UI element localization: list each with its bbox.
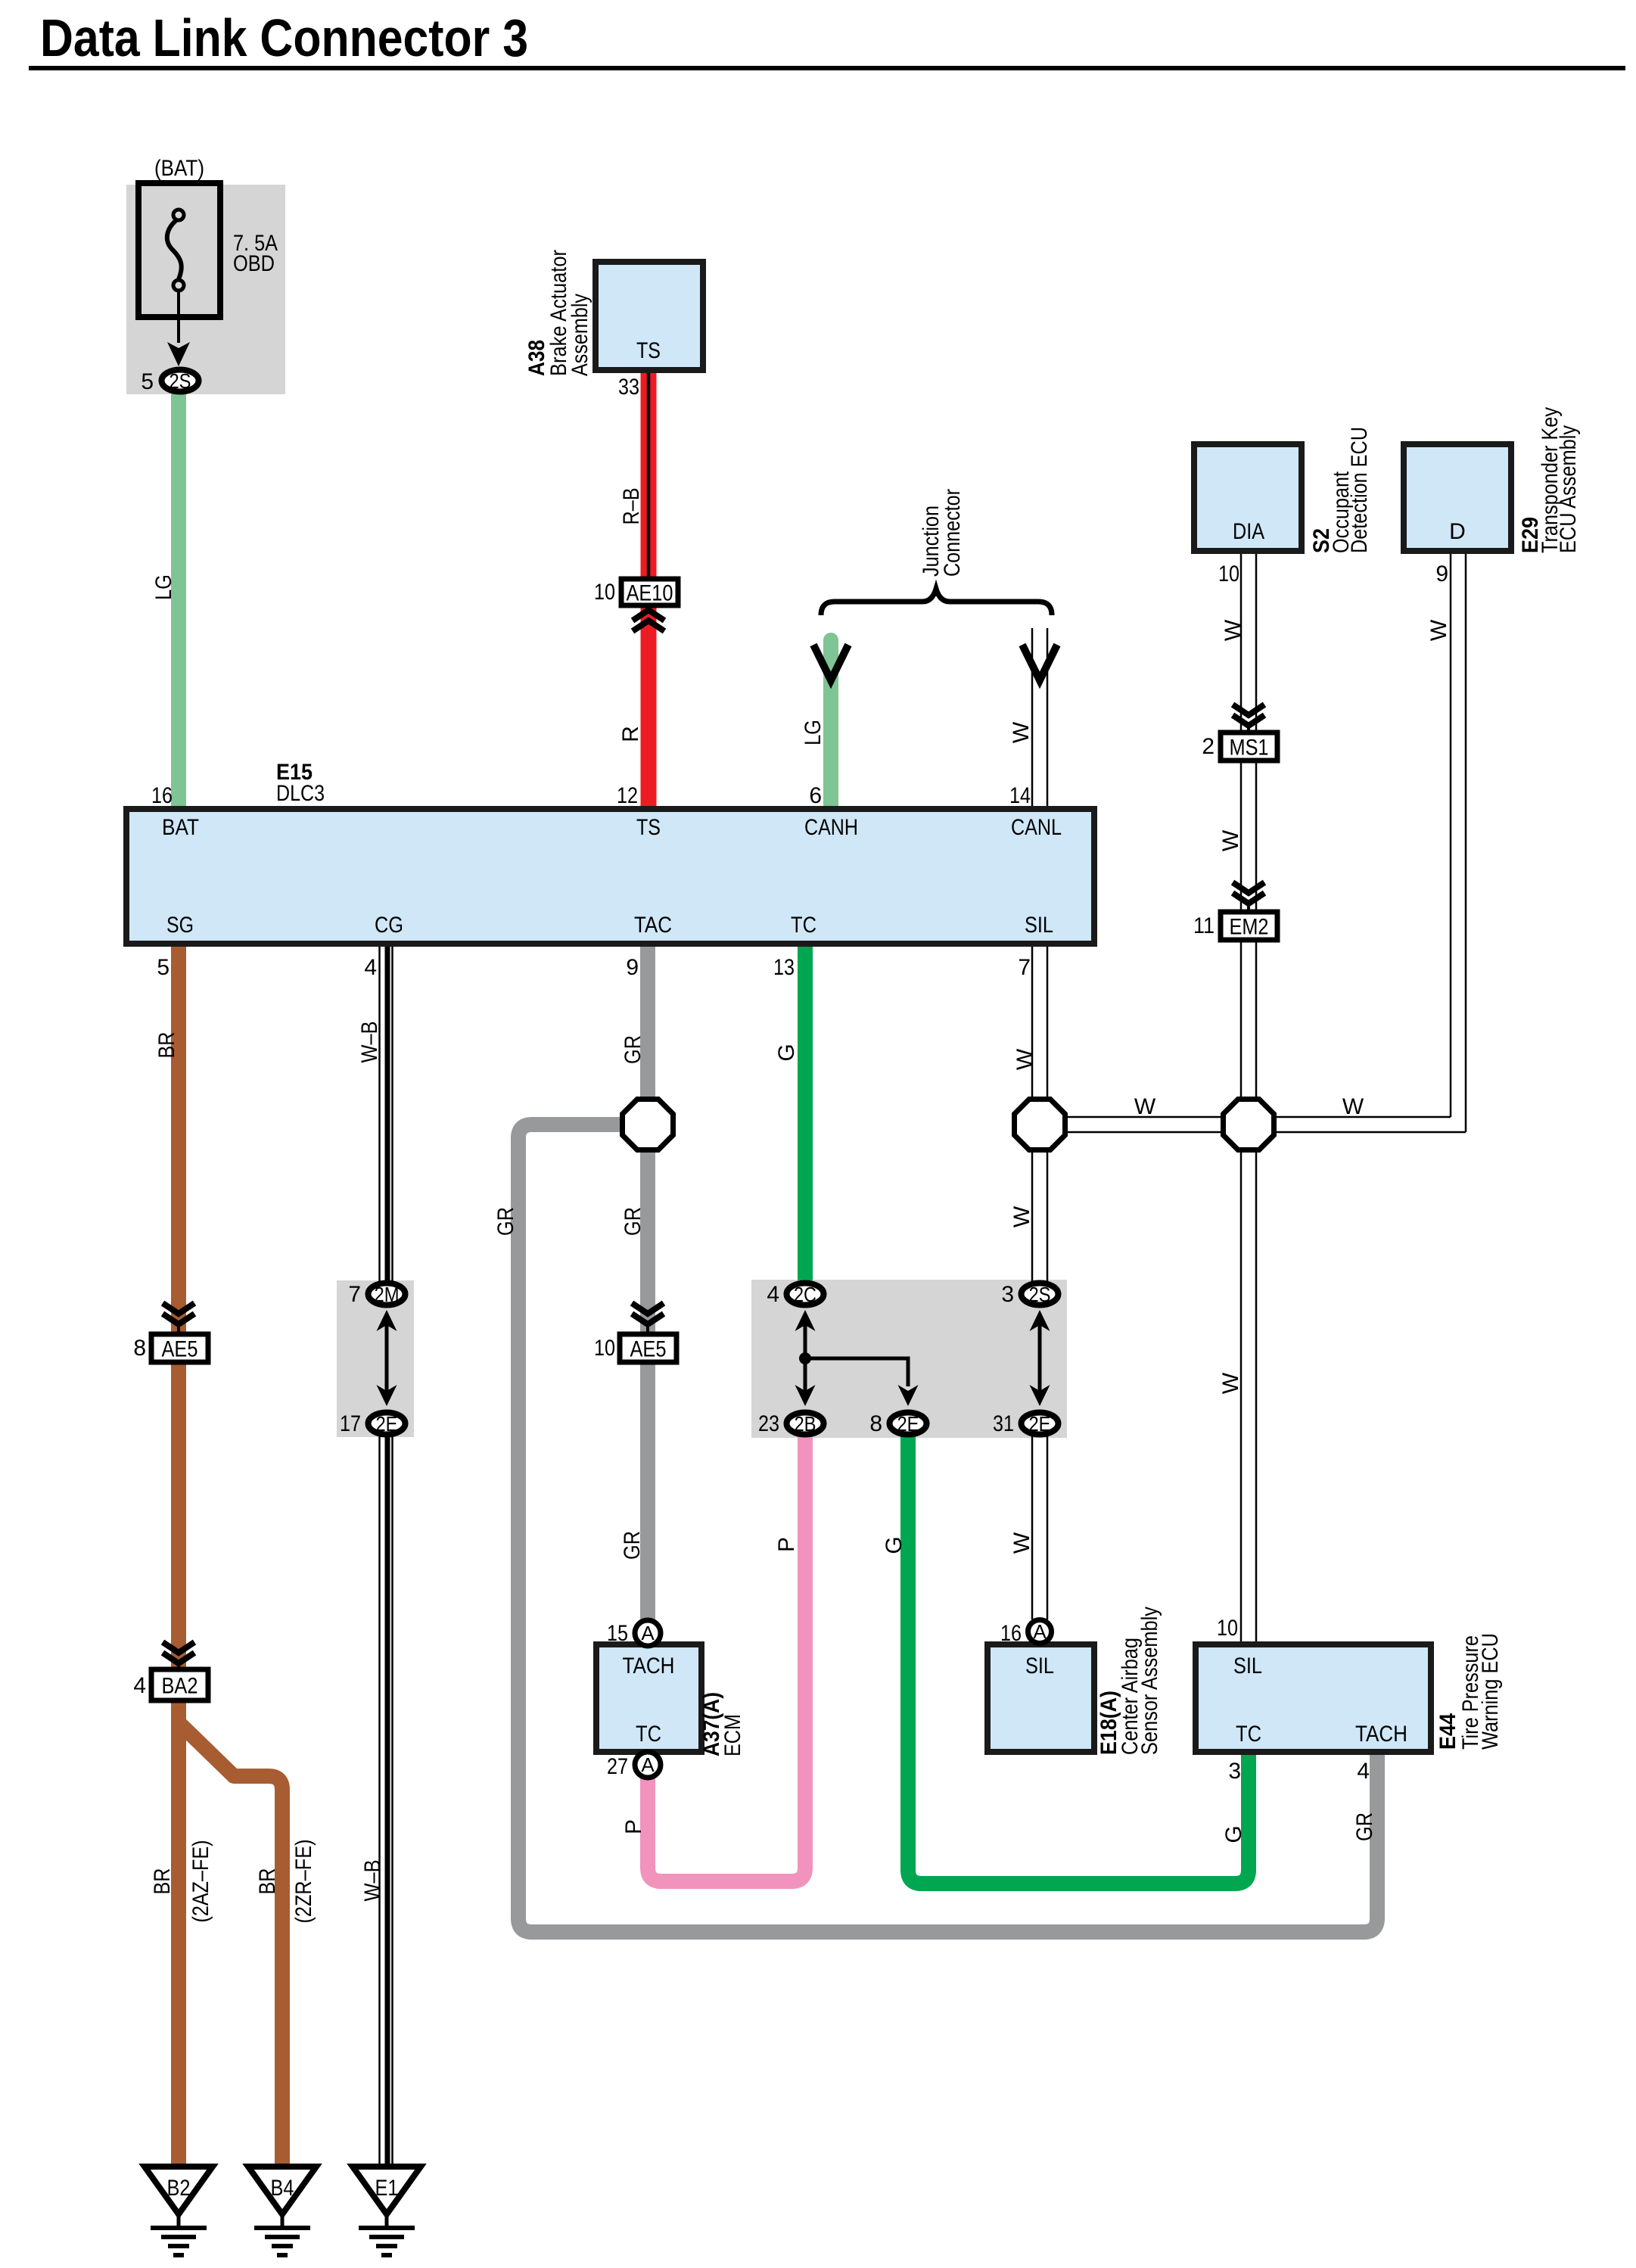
svg-text:SIL: SIL	[1025, 1654, 1054, 1678]
wire W from junction connector to E15 CANL pin 14	[1032, 628, 1047, 812]
svg-text:4: 4	[364, 955, 377, 980]
svg-text:E1: E1	[375, 2176, 399, 2201]
svg-text:W: W	[1426, 619, 1451, 641]
wire G from junction 2E pin 8 to E44 TC pin 3	[908, 1436, 1249, 1884]
svg-text:2: 2	[1202, 734, 1215, 759]
svg-text:9: 9	[626, 955, 639, 980]
wire W horizontal octagon to octagon	[1068, 1117, 1221, 1132]
svg-text:AE10: AE10	[627, 581, 673, 606]
svg-text:A: A	[641, 1753, 655, 1776]
pin 15 A circle	[635, 1620, 661, 1646]
junction arrow on LG wire	[813, 645, 848, 680]
svg-text:BA2: BA2	[162, 1674, 198, 1699]
chevron arrows MS1	[1233, 705, 1264, 726]
svg-text:W–B: W–B	[357, 1022, 382, 1063]
component E44 Tire Pressure Warning ECU	[1196, 1644, 1431, 1752]
svg-text:A: A	[641, 1622, 655, 1644]
wire W from E29 D pin 9 down and left to octagon	[1451, 554, 1466, 1132]
svg-text:G: G	[774, 1044, 799, 1061]
svg-text:(2AZ–FE): (2AZ–FE)	[188, 1840, 213, 1923]
svg-text:Detection ECU: Detection ECU	[1347, 427, 1372, 553]
svg-text:CANL: CANL	[1011, 815, 1062, 840]
connector 2S oval at fuse	[162, 370, 199, 392]
svg-text:A: A	[1033, 1620, 1047, 1643]
svg-text:AE5: AE5	[630, 1337, 667, 1362]
pin 16 A circle	[1028, 1620, 1052, 1644]
wire P from ECM TC pin 27 to junction 2B	[648, 1436, 805, 1881]
connector AE5 left	[151, 1334, 208, 1362]
wire LG from junction connector to E15 CANH pin 6	[823, 640, 838, 812]
svg-text:CANH: CANH	[804, 815, 858, 840]
svg-text:P: P	[621, 1819, 646, 1834]
wire BR branch to ground B4	[180, 1724, 282, 2164]
connector BA2	[151, 1669, 208, 1700]
svg-text:16: 16	[151, 783, 173, 808]
svg-text:5: 5	[141, 369, 154, 394]
arrows between 2M and 2E	[385, 1325, 389, 1393]
wire W octagon to junction 2S pin 3	[1032, 1149, 1047, 1281]
octagon junction W SIL	[1224, 1100, 1274, 1150]
svg-text:DIA: DIA	[1233, 519, 1264, 544]
svg-text:11: 11	[1193, 913, 1215, 938]
svg-text:Data Link Connector 3: Data Link Connector 3	[40, 8, 528, 67]
connector 2E junction pin 8	[890, 1413, 927, 1435]
svg-text:GR: GR	[493, 1207, 518, 1236]
svg-text:31: 31	[993, 1411, 1014, 1436]
ground B4	[248, 2167, 316, 2214]
svg-text:W: W	[1342, 1094, 1364, 1119]
connector EM2	[1221, 912, 1277, 940]
svg-text:10: 10	[594, 580, 615, 605]
svg-text:16: 16	[1000, 1621, 1022, 1646]
svg-text:TC: TC	[791, 913, 816, 938]
svg-text:2E: 2E	[376, 1412, 398, 1436]
connector 2S junction	[1022, 1283, 1059, 1305]
svg-text:SIL: SIL	[1233, 1654, 1262, 1678]
svg-text:TAC: TAC	[634, 913, 672, 938]
svg-text:15: 15	[607, 1621, 628, 1646]
pin 27 A circle	[635, 1752, 661, 1778]
svg-text:(2ZR–FE): (2ZR–FE)	[291, 1840, 316, 1924]
svg-text:LG: LG	[151, 574, 176, 600]
svg-text:12: 12	[617, 783, 638, 808]
svg-text:BR: BR	[154, 1032, 179, 1059]
arrows between 2C and 2B with branch to 2E	[804, 1325, 807, 1393]
wire GR long branch from octagon to E44 TACH pin 4	[518, 1125, 1377, 1932]
svg-text:SIL: SIL	[1025, 913, 1053, 938]
junction arrow on W wire	[1022, 645, 1057, 680]
svg-text:W: W	[1012, 1048, 1037, 1070]
arrow into 2S	[167, 342, 190, 366]
svg-text:10: 10	[1217, 1616, 1238, 1641]
junction connector 2C/2S/2B/2E background panel	[751, 1280, 1067, 1438]
svg-text:17: 17	[340, 1411, 361, 1436]
svg-text:10: 10	[594, 1336, 615, 1361]
svg-text:D: D	[1449, 519, 1466, 544]
chevron arrows AE5 middle	[632, 1303, 664, 1324]
junction connector 2M/2E background panel	[337, 1280, 414, 1437]
svg-text:3: 3	[1001, 1282, 1014, 1307]
svg-text:4: 4	[767, 1282, 779, 1307]
component S2 Occupant Detection ECU	[1194, 444, 1302, 551]
svg-text:W: W	[1009, 721, 1034, 743]
wire G from E15 TC pin 13 to junction 2C	[798, 941, 813, 1280]
svg-text:2E: 2E	[897, 1412, 919, 1436]
wire W CANL pin 14 to octagon	[1032, 947, 1047, 1099]
wire R-B from A38 TS pin 33 to AE10	[641, 369, 657, 580]
wire W octagon to E44 SIL pin 10	[1241, 1149, 1256, 1646]
svg-text:2E: 2E	[1029, 1412, 1051, 1436]
svg-text:4: 4	[1357, 1759, 1370, 1784]
svg-text:GR: GR	[620, 1207, 645, 1236]
svg-text:23: 23	[758, 1411, 779, 1436]
wire LG fuse 2S to E15 BAT pin 16	[171, 393, 186, 812]
svg-text:BR: BR	[255, 1868, 280, 1895]
svg-text:CG: CG	[375, 913, 403, 938]
svg-text:B4: B4	[271, 2176, 294, 2201]
svg-text:OBD: OBD	[233, 251, 275, 276]
svg-text:BAT: BAT	[162, 815, 199, 840]
svg-text:ECU Assembly: ECU Assembly	[1556, 425, 1581, 553]
wire W from S2 DIA pin 10 down through MS1 EM2 to octagon	[1241, 554, 1256, 733]
wire W-B from E15 CG pin 4 to junction 2M	[380, 941, 393, 1284]
svg-text:W: W	[1134, 1094, 1156, 1119]
svg-text:TS: TS	[636, 338, 661, 363]
connector MS1	[1221, 733, 1277, 761]
connector AE5 middle	[620, 1334, 676, 1362]
fuse OBD 7.5A	[138, 183, 220, 317]
svg-text:8: 8	[133, 1336, 146, 1361]
svg-text:W: W	[1009, 1206, 1034, 1227]
chevron arrows BA2	[163, 1642, 194, 1663]
svg-text:R–B: R–B	[619, 488, 644, 525]
svg-text:5: 5	[157, 955, 170, 980]
svg-text:TC: TC	[1236, 1722, 1261, 1747]
svg-text:G: G	[1221, 1825, 1246, 1843]
octagon junction GR	[623, 1100, 673, 1150]
svg-text:EM2: EM2	[1230, 915, 1269, 940]
wire W horizontal octagon to E29 wire corner	[1277, 1117, 1466, 1132]
svg-text:BR: BR	[150, 1868, 175, 1895]
wire BR from E15 SG pin 5 to ground B2	[171, 941, 186, 2164]
component E15 DLC3 data link connector	[126, 809, 1094, 944]
svg-text:14: 14	[1009, 783, 1031, 808]
component A37(A) ECM	[596, 1644, 701, 1752]
wire R from AE10 to E15 TS pin 12	[641, 604, 657, 812]
svg-text:R: R	[618, 726, 643, 742]
svg-text:9: 9	[1435, 562, 1448, 586]
svg-text:W: W	[1221, 619, 1246, 641]
svg-text:W: W	[1009, 1532, 1034, 1554]
svg-text:B2: B2	[167, 2176, 191, 2201]
svg-text:3: 3	[1228, 1759, 1241, 1784]
svg-text:MS1: MS1	[1230, 736, 1269, 761]
ground E1	[353, 2167, 421, 2214]
svg-text:7: 7	[1018, 955, 1031, 980]
svg-text:G: G	[882, 1536, 907, 1554]
svg-text:W: W	[1218, 829, 1243, 851]
connector 2C junction	[787, 1283, 824, 1305]
connector 2M junction	[369, 1283, 406, 1305]
octagon junction W CANL	[1015, 1100, 1065, 1150]
svg-text:TACH: TACH	[623, 1654, 675, 1678]
svg-text:TS: TS	[636, 815, 661, 840]
svg-text:W: W	[1218, 1372, 1243, 1394]
svg-text:8: 8	[869, 1411, 882, 1436]
svg-text:DLC3: DLC3	[276, 781, 325, 806]
svg-text:GR: GR	[620, 1531, 645, 1560]
svg-text:2M: 2M	[375, 1283, 400, 1306]
svg-text:E44: E44	[1435, 1713, 1460, 1750]
svg-text:Warning ECU: Warning ECU	[1478, 1633, 1503, 1750]
chevron arrows AE10	[633, 610, 664, 631]
svg-text:ECM: ECM	[720, 1714, 745, 1756]
svg-text:13: 13	[773, 955, 795, 980]
svg-text:W–B: W–B	[360, 1860, 385, 1902]
svg-text:LG: LG	[801, 720, 826, 745]
svg-text:2C: 2C	[794, 1283, 816, 1306]
svg-text:2B: 2B	[795, 1412, 816, 1436]
connector 2E junction	[369, 1413, 406, 1435]
arrows between 2S and 2E	[1038, 1325, 1042, 1393]
svg-text:Assembly: Assembly	[568, 294, 593, 376]
connector 2E junction pin 31	[1022, 1413, 1059, 1435]
connector AE10	[621, 579, 678, 605]
component E18(A) Center Airbag Sensor Assembly	[988, 1644, 1094, 1752]
svg-text:7: 7	[348, 1282, 361, 1307]
svg-text:TACH: TACH	[1355, 1722, 1407, 1747]
svg-text:Connector: Connector	[940, 489, 965, 577]
connector 2B junction	[787, 1413, 824, 1435]
svg-text:10: 10	[1218, 562, 1239, 586]
ground B2	[145, 2167, 213, 2214]
chevron arrows EM2	[1233, 882, 1264, 904]
component A38 Brake Actuator Assembly	[596, 262, 703, 370]
svg-text:TC: TC	[636, 1722, 661, 1747]
svg-text:(BAT): (BAT)	[154, 156, 204, 181]
wire GR from E15 TAC pin 9 to octagon junction	[640, 941, 655, 1125]
wire GR octagon junction to AE5 and ECM TACH pin 15	[640, 1125, 655, 1619]
fuse background panel	[126, 185, 285, 394]
svg-text:P: P	[774, 1537, 799, 1552]
wire W-B from junction 2E to ground E1	[380, 1434, 393, 2164]
svg-text:2S: 2S	[170, 369, 191, 393]
svg-text:GR: GR	[1352, 1812, 1377, 1841]
component E29 Transponder Key ECU Assembly	[1404, 444, 1511, 551]
chevron arrows AE5 left	[163, 1303, 194, 1324]
svg-text:4: 4	[133, 1673, 146, 1698]
svg-text:SG: SG	[166, 913, 194, 938]
svg-text:2S: 2S	[1029, 1283, 1051, 1306]
junction connector brace label	[821, 589, 1052, 615]
svg-text:27: 27	[607, 1754, 628, 1779]
wire W junction 2E pin 31 to E18 center airbag pin 16	[1032, 1436, 1047, 1619]
svg-text:AE5: AE5	[162, 1337, 198, 1362]
svg-text:6: 6	[809, 783, 822, 808]
svg-text:33: 33	[618, 375, 639, 400]
svg-text:GR: GR	[620, 1035, 645, 1064]
svg-text:Sensor Assembly: Sensor Assembly	[1137, 1607, 1162, 1755]
